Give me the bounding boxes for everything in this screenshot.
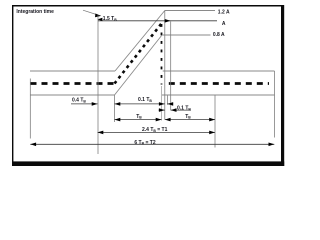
0.4 TB right-pointing arrow bbox=[92, 102, 98, 106]
row A dimension tail segment 3 bbox=[167, 103, 173, 105]
svg-text:TB: TB bbox=[185, 114, 191, 120]
1.5 TB dimension line and A level line bbox=[98, 20, 217, 22]
extension line x=170.7 bbox=[170, 21, 172, 110]
1.2A level line bbox=[165, 10, 215, 12]
row C TB dimension (right) bbox=[165, 119, 215, 121]
row B dimension line (right) bbox=[171, 109, 191, 111]
falling edge dotted signal bbox=[161, 24, 163, 85]
extension line x=164.8 bbox=[164, 11, 166, 120]
extension line x=98 bbox=[97, 15, 99, 154]
extension line x=30 bbox=[29, 79, 31, 139]
lower tolerance diagonal bbox=[115, 35, 163, 95]
TB right arrow bbox=[156, 118, 162, 122]
segment2 right-pointing arrow (0.1 TB first) bbox=[159, 102, 165, 106]
extension line x=114.5 bbox=[114, 95, 116, 122]
svg-text:0.1 TB: 0.1 TB bbox=[177, 106, 191, 112]
svg-text:0.1 TB: 0.1 TB bbox=[138, 97, 152, 103]
svg-text:0.8 A: 0.8 A bbox=[213, 32, 225, 38]
svg-text:Integration time: Integration time bbox=[16, 9, 54, 15]
extension line x=161.5 bbox=[161, 86, 163, 121]
tail left-pointing arrow bbox=[167, 102, 173, 106]
row C TB dimension (left) bbox=[115, 119, 162, 121]
upper tolerance band line (right) bbox=[163, 70, 275, 72]
row A dimension line segment 1 (0.4 TB) bbox=[71, 103, 98, 105]
TB left arrow bbox=[115, 118, 121, 122]
1.5 TB left arrow bbox=[98, 18, 103, 21]
1.5 TB right arrow bbox=[165, 19, 171, 23]
svg-text:TB: TB bbox=[136, 114, 142, 120]
svg-text:2.4 TB = T1: 2.4 TB = T1 bbox=[142, 127, 168, 133]
extension line x=167.4 bbox=[166, 96, 168, 105]
T1 right arrow bbox=[209, 131, 215, 135]
leader wire from Integration time label bbox=[83, 10, 96, 14]
TB right dim right arrow bbox=[209, 118, 215, 122]
svg-text:6 TB = T2: 6 TB = T2 bbox=[134, 140, 155, 146]
row D dimension line (2.4 TB = T1) bbox=[98, 131, 216, 133]
svg-text:1.2 A: 1.2 A bbox=[218, 10, 230, 16]
row B dimension tail (left) bbox=[159, 109, 165, 111]
svg-text:0.4 TB: 0.4 TB bbox=[72, 97, 86, 103]
upper tolerance diagonal bbox=[115, 11, 165, 72]
T2 right arrow bbox=[269, 143, 275, 147]
segment2 left-pointing arrow bbox=[115, 102, 121, 106]
extension line x=274.5 bbox=[274, 71, 276, 138]
row E dimension line (6 TB = T2) bbox=[30, 143, 274, 145]
svg-text:1.5 TB: 1.5 TB bbox=[103, 16, 117, 22]
baseline dashed signal (left) bbox=[31, 82, 115, 85]
extension line x=215 bbox=[214, 95, 216, 148]
upper tolerance band line (left) bbox=[30, 70, 115, 72]
row A dimension line segment 2 bbox=[115, 103, 165, 105]
0.8A level line bbox=[162, 34, 211, 36]
svg-text:A: A bbox=[222, 21, 226, 27]
baseline dashed signal (right) bbox=[169, 82, 269, 85]
T2 left arrow bbox=[30, 143, 36, 147]
leader arrowhead bbox=[95, 14, 101, 18]
lower tolerance band line (right) bbox=[162, 94, 275, 96]
rising ramp dashed signal bbox=[115, 24, 162, 84]
TB right dim left arrow bbox=[165, 118, 171, 122]
lower tolerance band line (left) bbox=[30, 94, 115, 96]
row B right-pointing arrow bbox=[159, 108, 165, 112]
T1 left arrow bbox=[98, 131, 104, 135]
row B left-pointing arrow bbox=[171, 108, 177, 112]
